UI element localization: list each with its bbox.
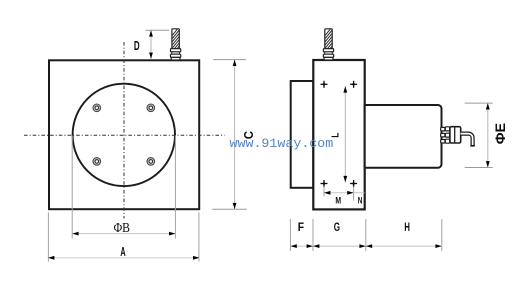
horizontal centerline [24, 134, 225, 136]
svg-text:ΦE: ΦE [492, 123, 507, 144]
svg-text:M: M [335, 195, 341, 206]
F arrow left [290, 244, 296, 248]
cable gland nut block [450, 127, 461, 143]
phiB arrow left [72, 232, 78, 236]
G/H arrows at H left boundary [359, 244, 365, 248]
dimension A line [48, 257, 199, 259]
dimension D arrow up [149, 30, 153, 36]
dimension A left extension line [47, 212, 49, 261]
A arrow right [193, 256, 199, 260]
dimension phiE line [487, 103, 489, 167]
svg-text:F: F [298, 221, 304, 234]
cable gland ridge bars column 2 [445, 127, 449, 143]
hole marker cross top-left [321, 81, 328, 88]
dimension C arrow up [233, 60, 237, 66]
dimension L line [344, 86, 346, 182]
cylinder body [365, 105, 442, 168]
svg-text:H: H [404, 222, 410, 235]
dimension phiB line [72, 233, 175, 235]
phiE top extension line [465, 102, 493, 104]
N extension from right cross [353, 187, 355, 201]
flange side rectangle [313, 60, 364, 209]
stud bolt left view [170, 27, 180, 60]
svg-text:D: D [134, 39, 140, 53]
mounting circle [73, 84, 175, 186]
dimension C top extension line [213, 59, 246, 61]
phiE arrow up [486, 103, 490, 109]
F/G arrows at G left boundary [307, 244, 313, 248]
H arrow right [435, 244, 441, 248]
square flange body [49, 60, 199, 209]
H left extension line [365, 219, 367, 251]
screw hole bottom-right [147, 158, 155, 166]
svg-text:www.91way.com: www.91way.com [230, 136, 334, 151]
hole marker cross bottom-right [350, 180, 357, 187]
extension line phiB left [71, 136, 73, 239]
screw hole top-left [93, 104, 101, 112]
screw hole bottom-left [93, 158, 101, 166]
svg-text:G: G [334, 222, 340, 235]
A arrow left [48, 256, 54, 260]
svg-text:A: A [120, 245, 126, 260]
screw hole top-right [147, 104, 155, 112]
F extension line [289, 219, 291, 251]
G extension line [312, 219, 314, 251]
cable gland nut divider [454, 127, 456, 143]
dimension D line [150, 30, 152, 59]
phiE bottom extension line [465, 167, 493, 169]
cable end cap [470, 145, 475, 147]
M arrow right [347, 191, 353, 195]
M arrow left [324, 191, 330, 195]
dimension C line [234, 60, 236, 210]
dimension D arrow down [149, 53, 153, 59]
L arrow up [343, 86, 347, 92]
cable elbow tube [461, 134, 473, 146]
H right extension line [441, 219, 443, 251]
stud bolt right view [323, 27, 333, 60]
phiE arrow down [486, 161, 490, 167]
svg-text:ΦB: ΦB [114, 219, 130, 235]
extension line phiB right [174, 136, 176, 239]
M extension from left cross [323, 187, 325, 197]
rear boss rectangle [291, 81, 314, 188]
dimension A right extension line [198, 212, 200, 261]
dimension C arrow down [233, 203, 237, 209]
dimension C bottom extension line [212, 208, 246, 210]
phiB arrow right [169, 232, 175, 236]
hole marker cross bottom-left [321, 180, 328, 187]
hole marker cross top-right [350, 81, 357, 88]
dimension M line [324, 192, 364, 194]
F G H dimension line [290, 245, 441, 247]
cable gland ridge bars column 1 [441, 127, 445, 143]
vertical centerline [123, 42, 125, 219]
L arrow down [343, 176, 347, 182]
svg-text:N: N [358, 195, 363, 206]
dimension D extension line [146, 29, 170, 31]
